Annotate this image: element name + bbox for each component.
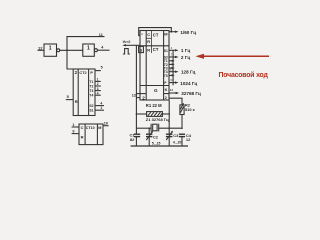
svg-text:1/60 Гц: 1/60 Гц <box>180 30 196 35</box>
svg-text:CT: CT <box>153 47 159 52</box>
D4 M output 1/60 Hz arrow <box>169 31 179 33</box>
svg-text:R: R <box>75 99 78 104</box>
D2 output stub S2 <box>95 105 104 107</box>
quartz crystal Z1 32768 Hz <box>136 124 182 132</box>
D2 output stub S1 <box>95 109 104 111</box>
svg-text:S1: S1 <box>164 49 168 53</box>
D4 feedback wire M output to top-left input <box>139 28 172 36</box>
node C4 top junction <box>181 127 183 129</box>
svg-text:12: 12 <box>132 93 136 97</box>
svg-text:1: 1 <box>87 46 90 52</box>
svg-text:T5: T5 <box>164 74 168 78</box>
resistor R1 22M <box>136 112 169 117</box>
wire oscillator left vertical (Z input bus) <box>135 45 137 134</box>
D4 right inner vertical wire <box>172 50 174 85</box>
svg-text:12: 12 <box>186 137 191 142</box>
svg-text:R: R <box>147 47 150 52</box>
svg-text:12: 12 <box>38 45 43 50</box>
capacitor C4 12 <box>179 134 185 146</box>
svg-text:C2: C2 <box>153 135 159 140</box>
inverter D1.2 <box>83 44 98 56</box>
svg-text:10: 10 <box>104 121 108 125</box>
D4 T1 output stub <box>169 60 175 62</box>
counter D3 (CT10) body <box>79 124 103 145</box>
D4 S2 output 2 Hz arrow <box>169 56 179 58</box>
svg-text:P: P <box>90 71 93 75</box>
svg-text:510 к: 510 к <box>185 107 195 112</box>
svg-text:R1 22 М: R1 22 М <box>146 103 162 108</box>
reset input Ust.0 arrow line <box>122 44 140 46</box>
svg-text:M: M <box>98 126 101 130</box>
D4 T2 output stub <box>169 63 175 65</box>
node C3 top junction <box>168 127 170 129</box>
counter D2 (CT2) body <box>73 69 95 116</box>
node C2 top junction <box>148 127 150 129</box>
D3 top-right stub pin 10 <box>103 125 109 127</box>
background paper <box>0 0 300 168</box>
svg-text:5...15: 5...15 <box>152 141 161 145</box>
svg-text:C: C <box>81 126 84 130</box>
D4 S input cell <box>139 46 144 52</box>
svg-text:4...20: 4...20 <box>173 141 182 145</box>
D2 output stub T4 <box>95 94 101 96</box>
svg-text:2: 2 <box>142 96 145 101</box>
svg-text:4: 4 <box>100 101 102 105</box>
svg-text:2: 2 <box>97 82 99 86</box>
svg-text:82: 82 <box>130 137 135 142</box>
svg-text:11: 11 <box>99 33 103 37</box>
svg-text:5: 5 <box>101 65 103 69</box>
wire right vertical from D4 bottom <box>168 100 170 134</box>
D4 T3 output stub <box>169 67 175 69</box>
svg-text:1: 1 <box>97 78 99 82</box>
wire junction up to top stub <box>67 37 105 51</box>
svg-text:Z1 32768 Гц: Z1 32768 Гц <box>146 117 169 122</box>
pin 12 input stub of D1.1 <box>38 49 45 51</box>
svg-text:R: R <box>147 39 150 44</box>
svg-text:5: 5 <box>67 95 69 99</box>
svg-text:1 Гц: 1 Гц <box>181 48 190 53</box>
svg-text:S1: S1 <box>89 109 93 113</box>
svg-text:CT: CT <box>153 32 159 37</box>
wire D1.1 output to D1.2 input <box>60 49 83 51</box>
counter-oscillator D4 (K176IE12) body <box>140 31 169 101</box>
D4 T5 output stub <box>169 74 175 76</box>
svg-text:128 Гц: 128 Гц <box>181 70 196 75</box>
D3 input R stub pin 9 <box>72 133 79 135</box>
labels: small text <box>38 30 201 146</box>
node R1 right junction <box>168 113 170 115</box>
svg-text:C3: C3 <box>173 133 179 138</box>
node R1 left junction <box>136 113 138 115</box>
D3 input C stub pin 1 <box>72 126 79 128</box>
svg-text:1: 1 <box>72 123 74 127</box>
D4 bottom-left pin stub 2 <box>136 97 140 99</box>
svg-text:C: C <box>147 32 150 37</box>
svg-text:R: R <box>81 135 84 140</box>
svg-text:G: G <box>154 88 158 93</box>
svg-text:9: 9 <box>72 129 74 133</box>
D2 input R stub pin 5 <box>66 99 73 101</box>
svg-text:CT2: CT2 <box>79 71 86 75</box>
wire D1.2 output stub pin 4 <box>98 49 110 51</box>
svg-text:T4: T4 <box>89 94 93 98</box>
svg-text:4: 4 <box>97 91 99 95</box>
svg-text:S: S <box>140 47 143 52</box>
svg-text:1024 Гц: 1024 Гц <box>180 81 197 86</box>
D2 output stub T3 <box>95 90 101 92</box>
svg-text:T3: T3 <box>89 89 93 93</box>
capacitor C1 82 <box>134 134 140 146</box>
svg-text:Почасовой ход: Почасовой ход <box>219 71 269 79</box>
svg-text:T2: T2 <box>89 84 93 88</box>
red annotation arrow (hour signal pointer) <box>195 54 269 59</box>
svg-text:32768 Гц: 32768 Гц <box>181 91 201 96</box>
node at 1/60 output junction <box>170 31 172 33</box>
svg-text:3: 3 <box>97 87 99 91</box>
D4 T4 output 128 Hz arrow <box>169 71 179 73</box>
resistor R2 510k <box>169 98 184 128</box>
svg-text:2 Гц: 2 Гц <box>181 55 190 60</box>
trimmer capacitor C2 <box>146 128 153 146</box>
D4 S1 output 1 Hz arrow <box>169 49 179 51</box>
trimmer capacitor C3 <box>166 131 173 146</box>
D2 output stub T2 <box>95 85 101 87</box>
svg-text:T1: T1 <box>89 80 93 84</box>
common ground rail <box>131 145 188 147</box>
D4 K output 32768 Hz arrow <box>169 92 179 94</box>
svg-text:1: 1 <box>49 46 52 52</box>
svg-text:14: 14 <box>170 88 174 92</box>
svg-text:K: K <box>165 88 168 92</box>
svg-text:1: 1 <box>100 106 102 110</box>
D2 top-right stub pin 5 <box>95 70 101 72</box>
inverter D1.1 <box>44 44 60 56</box>
D4 bottom-left pin stub 12 <box>136 93 140 95</box>
D2 output stub T1 <box>95 80 101 82</box>
D4 P output 1024 Hz arrow <box>169 81 179 83</box>
node junction at gate output wire <box>66 49 68 51</box>
wire junction down to counter D2 clock <box>67 50 73 69</box>
meander pulse symbol <box>123 49 130 54</box>
svg-text:CT10: CT10 <box>86 126 95 130</box>
svg-text:S2: S2 <box>89 104 93 108</box>
svg-text:Уст.0: Уст.0 <box>123 40 131 44</box>
